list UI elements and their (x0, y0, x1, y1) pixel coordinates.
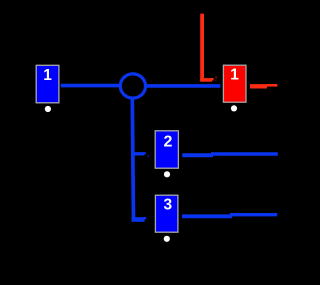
svg-text:1: 1 (230, 66, 239, 83)
svg-text:2: 2 (164, 133, 173, 150)
svg-text:3: 3 (163, 196, 172, 213)
svg-text:1: 1 (43, 67, 52, 84)
